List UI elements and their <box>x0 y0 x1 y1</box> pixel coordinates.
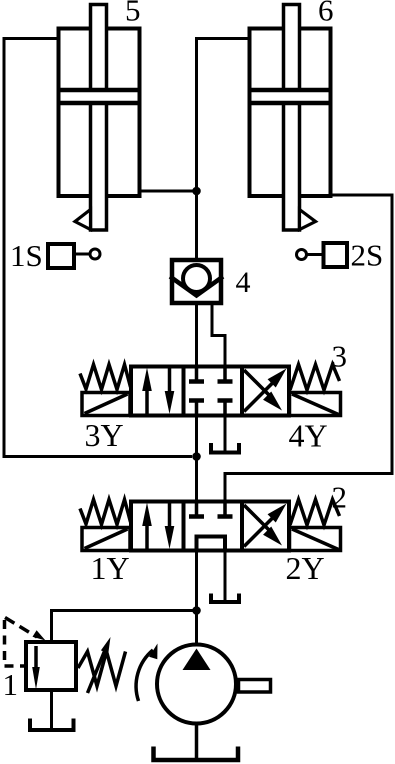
valve 3 body (3-position 4-way directional valve) <box>131 367 289 416</box>
tank symbol under valve 2 <box>211 594 239 603</box>
cylinder 6 rod cam wedge <box>300 210 316 230</box>
wire valve 2 T port drain <box>224 552 227 600</box>
spring right of valve 3 <box>290 365 340 391</box>
relief valve 1 spring <box>78 652 126 687</box>
wire check valve pilot jog to valve 3 B port <box>212 305 225 366</box>
relief valve 1 adjustment arrow <box>88 637 111 693</box>
valve 2 right position crossed arrows <box>244 504 287 547</box>
cylinder 5 rod cam wedge <box>75 210 91 230</box>
wire valve 3 P port down to valve 2 A port <box>195 417 198 500</box>
tank symbol under pump <box>154 747 239 761</box>
solenoid 4Y box <box>290 393 341 416</box>
pump P1 <box>157 645 236 724</box>
solenoid 3Y box <box>82 393 130 416</box>
cylinder 6 piston rod <box>284 5 300 231</box>
valve 3 center position blocked ports <box>189 367 233 416</box>
svg-text:1S: 1S <box>10 238 43 273</box>
svg-text:3: 3 <box>332 339 348 374</box>
wire check valve outlet to valve 3 A port <box>195 305 198 366</box>
limit switch 1S <box>48 244 100 268</box>
svg-text:2Y: 2Y <box>286 550 325 586</box>
wire cylinder 6 left port to center line <box>197 39 249 259</box>
cylinder 5 piston <box>57 88 142 105</box>
tank symbol under valve 3 <box>211 443 239 453</box>
wire left border from cylinder 5 port to lower junction <box>4 39 192 457</box>
svg-text:4: 4 <box>236 266 251 299</box>
relief valve 1 body <box>26 642 76 690</box>
node junction A (cyl5/cyl6/check valve) <box>192 187 201 196</box>
node junction B (valve3 P / valve2 A / left border) <box>192 452 201 461</box>
cylinder 5 piston rod <box>91 5 107 231</box>
wire relief valve branch to pump line <box>52 611 197 642</box>
valve 2 body (3-position 4-way directional valve) <box>131 502 289 551</box>
wire pump to tank <box>195 724 199 759</box>
svg-text:5: 5 <box>125 0 141 28</box>
valve 2 center position M-type <box>189 502 233 551</box>
valve 3 right position crossed arrows <box>244 369 287 412</box>
cylinder 5 body <box>59 29 140 197</box>
wire valve 2 P port down to pump <box>195 552 198 646</box>
spring left of valve 3 <box>80 365 131 390</box>
valve 3 left position arrows <box>142 368 174 415</box>
svg-text:2: 2 <box>332 480 348 515</box>
cylinder 6 piston <box>248 88 333 105</box>
svg-text:6: 6 <box>318 0 334 28</box>
valve 2 left position arrows <box>142 503 174 550</box>
svg-text:3Y: 3Y <box>85 417 124 453</box>
cylinder 6 body <box>250 29 331 197</box>
pilot operated check valve 4 <box>170 260 223 303</box>
solenoid 1Y box <box>82 528 130 551</box>
node junction C (pump / relief valve / valve2 P) <box>192 606 201 615</box>
tank symbol under relief valve <box>30 719 74 731</box>
spring right of valve 2 <box>290 500 340 526</box>
svg-text:1Y: 1Y <box>91 550 130 586</box>
svg-text:4Y: 4Y <box>289 418 328 454</box>
pump drive shaft <box>239 680 271 693</box>
limit switch 2S <box>297 243 348 267</box>
relief valve 1 pilot line (dashed) <box>5 618 46 667</box>
wire cylinder 5 right port <box>141 190 197 193</box>
spring left of valve 2 <box>80 500 131 525</box>
pump rotation arrow <box>136 644 157 702</box>
wire right border from cylinder 6 right port to valve 2 B port <box>225 195 392 500</box>
wire relief valve to tank <box>50 690 53 728</box>
wire valve 3 T port drain <box>224 417 227 451</box>
svg-text:2S: 2S <box>351 238 384 273</box>
solenoid 2Y box <box>290 528 341 551</box>
svg-text:1: 1 <box>3 667 19 702</box>
